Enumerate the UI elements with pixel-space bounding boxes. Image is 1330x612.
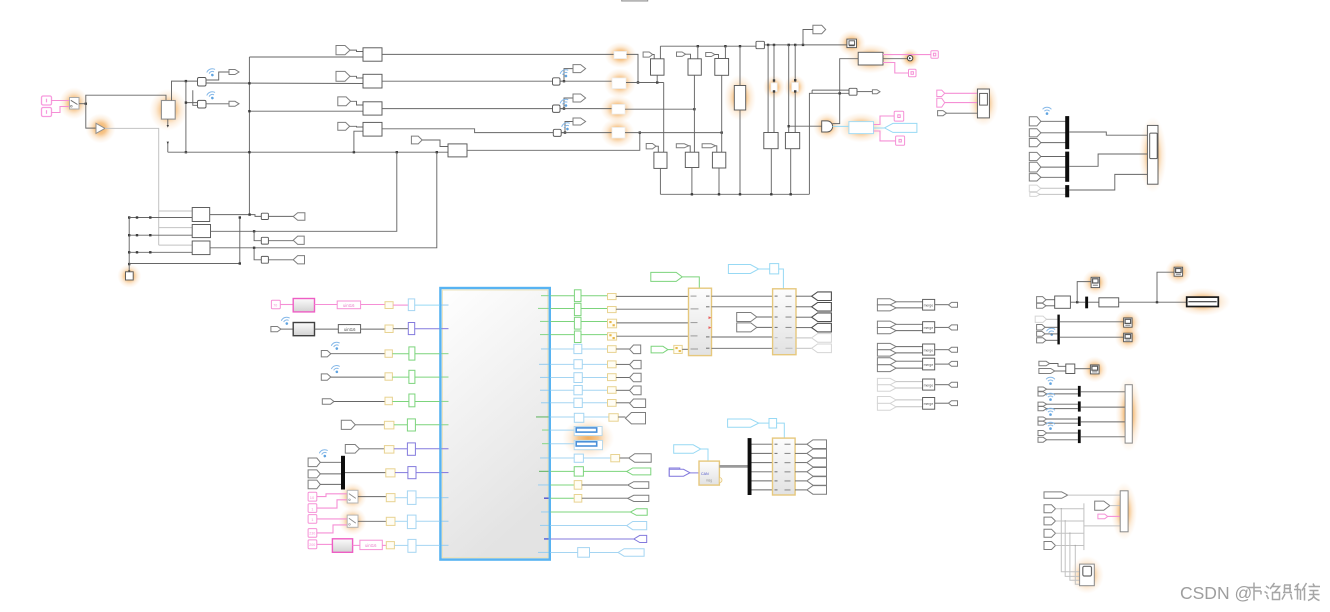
display D2 highlighted [1174,267,1183,276]
goto tag G2 [229,101,239,106]
mux bar m4 [1078,430,1081,444]
wire cyan to big tag [874,127,885,129]
block IC data store highlighted [847,39,857,48]
mux row2 tags [1038,402,1078,411]
wire Y11 to LB11 [394,544,408,546]
wire j1 down to B2 [186,81,198,103]
out row20 lightblue [551,548,645,558]
yellow sq Y5 [385,397,392,405]
wire C2 bottom long [693,75,695,152]
wire y83 B1 to R2 [206,82,363,85]
out row5 blue [551,344,641,353]
switch sw2 highlighted [347,515,358,527]
mux bar m3 [1078,417,1081,427]
wire bot3 bottom [718,168,720,194]
from tag F1 [336,46,350,55]
pink square PS2 [909,69,917,76]
port label dashes big block [442,295,549,553]
wifi icon group2 [1046,327,1056,336]
block T1 tall highlighted [734,86,745,111]
sub2 out wires [796,295,812,297]
gray from tag GF1 [938,111,947,116]
wire bot2 bottom [691,168,693,195]
block b3 [192,241,210,255]
wire bus to TB2 [1084,525,1120,527]
block PG2 gradient magenta [332,539,352,553]
wire drop to r3 [254,248,261,260]
from tag RT5 [1029,162,1041,172]
pink sq S3p [308,515,317,524]
wire to display D3 [1060,321,1124,323]
block R3 [363,102,382,115]
wire r3 to g3 [268,259,293,261]
svg-text:merge: merge [924,304,934,308]
svg-text:uint16: uint16 [343,303,355,308]
inport rect indigo [669,468,680,476]
switch SW1 [70,98,80,110]
out row11 display bar1 [551,427,603,436]
wire BO1 pink down to PS2 [883,63,909,74]
wire PG2 to PU2 [353,544,360,546]
wire verticals to bot4 [767,45,769,133]
pink const PK1 [271,300,280,309]
svg-text:merge: merge [924,348,934,352]
wire vertical to bot5 through B [794,45,796,133]
block R4 [363,122,382,136]
wire FR3 to Y3 [331,353,385,355]
wire NF1 to TB2 [1068,494,1121,496]
block BO1 highlighted [858,52,883,65]
wire gate second input riser [833,93,840,123]
from tag FC3 [706,53,715,57]
wire K2 to switch [51,107,69,113]
wire IB7 to block [415,448,439,450]
block O3 highlighted [612,105,625,115]
block C2 [688,59,701,75]
wire BO1 pink out to PS1 [883,54,931,56]
mux bar group2 [1057,315,1059,345]
from tag RT3 [1029,139,1041,147]
mux bar m2 [1078,401,1081,411]
wire FR7 to Y7 [359,448,384,450]
out row16 [551,495,649,503]
wire block448 out up to O4 line [467,133,640,151]
mux bar m1 [1078,386,1081,397]
from tag RT2 [1029,129,1041,137]
wire m4 to TB [1081,436,1125,438]
constant K2 (pink) [42,108,52,117]
from tag FB1 [646,144,656,149]
goto tag G1 [229,70,239,75]
yellow sq Y3 [385,350,392,357]
wire riser to display D2 [1157,272,1174,302]
merge row6 faint [877,397,957,411]
wire sub1 to sub2 row5 [712,336,773,338]
green from tag GFT [651,346,668,353]
wire R3 out to S2 [382,108,553,110]
wire y111 to R3 [249,110,363,112]
wire riser to BO1 [840,59,859,94]
and gate U1 highlighted [822,121,833,132]
stub tick to row wire [167,142,169,152]
wifi icon GT2 [281,316,292,326]
wifi icon S2 [559,98,570,109]
wire second line into B2 [193,90,198,105]
wire sub1 to sub2 row6 [712,347,773,349]
block O2 highlighted [612,78,626,89]
from tag MX3 [308,480,320,489]
subsystem sub4 [773,438,796,495]
stub below MS [167,119,169,126]
wire B2 to goto G2 [206,103,229,105]
from tag MA [1039,361,1050,366]
lightblue rect LB11 [408,539,416,552]
wire top bus y46 [660,45,756,47]
goto tag T3 [573,118,586,125]
wire sub3 thick out [719,465,748,468]
block C3 [715,59,729,76]
wire R2 out to S1 [382,80,553,82]
indigo from tag IFT [669,469,690,476]
wire GR5 to block [415,401,440,403]
svg-text:CSDN @: CSDN @ [1180,583,1252,603]
lightblue rect LB10 [407,515,416,529]
wifi m1 [1046,377,1055,385]
goto tag OT2 [812,303,832,312]
wire PU1 to Y1 [361,304,385,306]
wire r2 to g2 [268,240,293,242]
from tag RT7 faint [1029,185,1041,192]
wire PK1 to PG1 [280,304,293,306]
yellow sq Y1 [385,302,393,309]
wire parallel pair line [812,89,849,91]
indigo rect IB2 [408,323,414,335]
yellow sq Y7 [384,446,394,454]
white tag WT2 [737,323,757,332]
wire S1 out to O2 [560,80,612,82]
wires tags to mux bars [1041,120,1066,122]
block KG gradient black [293,323,314,336]
block bot5 [785,133,799,149]
block O4 highlighted [612,128,625,139]
wire T1 top [739,46,741,85]
wire down to orange square [128,264,130,272]
block B delay highlighted [792,83,799,92]
wire y57 to R1 [249,56,363,58]
block CAN pack highlighted [849,122,874,134]
block A delay highlighted [771,83,777,92]
wifi icon MX [319,449,330,459]
wire Y4 to GR4 [392,376,409,378]
goto tag OT4 [812,323,832,332]
gray from tag GT2 [271,327,281,332]
top partial block [622,0,648,1]
block MC [1066,364,1075,374]
display D5 highlighted [1090,365,1099,374]
goto tag g3 [293,256,304,264]
wire to and gate [789,125,822,127]
wire S2 out to O3 [560,108,612,110]
wire NF2 to TB2 [1110,505,1120,507]
wire B1 to goto G1 [206,72,229,80]
wire down to gain [86,104,96,128]
wire b2 out long [211,152,397,231]
block M1 [849,88,857,95]
from tag NT2 [1044,517,1056,525]
wire Y2 to IB2 [393,328,408,330]
blue from tag BFT3 [674,445,701,454]
wire Y6 to GR6 [394,424,408,426]
from tag NT3 [1044,529,1056,537]
wire row5 y152 [168,151,448,153]
svg-text:CAN: CAN [701,472,709,476]
out row7 blue [551,373,642,383]
wire mux out to Y8 [345,472,386,474]
wire RC out to bar [1070,301,1085,303]
wire M1 to goto [857,91,872,93]
wire up to MS top [86,95,166,104]
merge row1 [877,299,957,311]
block C1 [651,59,665,75]
display D4 highlighted [1124,333,1133,342]
wifi icon RT [1043,107,1052,115]
wire MC to D5 [1075,368,1091,370]
wire to display D4 [1060,336,1124,338]
wire PU2 to Y11 [382,544,386,546]
yellow sq Y2 [385,325,393,333]
from tag RT6 [1029,174,1041,181]
wire R1 out to O1 [382,53,614,55]
block OS highlighted [126,272,134,280]
goto tag M1T [872,90,880,94]
out row14 green [551,467,651,476]
from tag NT1 [1044,505,1056,513]
scope SC highlighted [1080,564,1095,586]
pink wires to sw2 [317,518,347,520]
wire S3 out to O4 [561,132,612,134]
goto tag TG top [813,25,826,33]
wifi m2 [1046,393,1055,401]
wire sw1 to Y9 [358,496,386,498]
from tag MX2 [308,470,320,478]
wires tags to mux [320,461,341,463]
wire R4 lower input riser [354,131,363,152]
constant K1 (pink) [42,96,52,105]
out row13 blue [551,454,652,463]
wire GR6 to block [415,424,439,426]
yellow sq Y10 [386,517,395,525]
wire gate out cyan [833,125,849,127]
wire PG1 to PU1 [315,304,338,306]
yellow sq icon [674,345,682,353]
wire Y8 to IB8 [395,472,408,474]
block b1 [192,208,210,222]
from tag FR4 [321,374,331,380]
watermark hanzi strokes [1247,583,1320,601]
block756 [756,41,764,48]
blue sq BS2 [769,419,777,429]
merge row2 [877,321,957,334]
wire bot5 bottom [790,149,792,195]
subsystem sub3 [699,461,722,485]
wire FR4 to Y4 [331,376,385,378]
out row12 display bar2 [551,440,603,449]
out row2 green [551,303,689,315]
block b2 [192,225,210,238]
mux bar3 [1065,185,1069,197]
wires to mux2 [1047,318,1058,320]
demux bar [748,438,752,495]
wire pink PF2 to scope [945,102,978,104]
wire O3 out [625,108,694,110]
wire IB2 to block [415,328,440,330]
wire Y10 to LB10 [395,520,407,522]
wire S5p to PG2 [317,543,333,545]
wifi icon S1 [559,68,570,79]
display D1 highlighted [1091,277,1100,287]
pink from tag PF1 [937,90,945,96]
svg-text:200: 200 [309,543,315,547]
from tag NF2 [1095,501,1110,510]
goto tag T1 [573,65,586,73]
pink sq S1p [308,492,317,501]
wire b1 dark input [129,217,192,219]
subsystem sub2 [773,289,796,355]
wire bottom bus y194 [660,193,809,195]
block S3 [553,129,561,136]
goto tag g1 [293,213,305,221]
block bot3 [712,152,725,168]
mux row4 tags [1038,431,1078,443]
wire switch out to junctions [79,103,86,105]
block S1 [553,78,561,85]
wire F5 to block448 [422,140,448,147]
from tag FR5 [322,399,334,405]
wire m2 to TB [1081,406,1125,408]
pink sq S2p [308,504,317,513]
block B1 [198,78,207,87]
wires MA MB to MC [1050,364,1066,367]
out row17 green tag [551,509,648,516]
pink sq S5p [308,540,317,549]
pink square PS3 [894,111,904,121]
wire bus up x809 [809,93,849,194]
block bot4 [764,133,778,149]
wire sw2 to Y10 [358,520,386,522]
wire MS top to B1 [172,81,198,100]
svg-text:merge: merge [924,383,934,387]
mux row3 tags [1038,417,1078,425]
wire bar to RD [1088,301,1099,303]
wire R4 out stepped to S3 [382,129,553,133]
wire pink PF1 to scope [945,92,978,94]
wire LB1 to block [415,304,440,306]
from tag MB [1039,369,1055,374]
svg-text:uint16: uint16 [365,543,377,548]
from tag RB [1037,303,1046,308]
wire b3 out long [210,152,437,248]
svg-text:msg: msg [706,479,712,483]
wire bot4 bottom [770,149,772,195]
tall block TB2 highlighted [1120,491,1128,532]
block PG1 gradient magenta [293,299,314,312]
block PU1 uint16 [337,301,360,309]
wire m1 to TB [1081,391,1125,393]
wire j1 continues down to row5 [185,103,187,153]
from tag RT4 [1029,152,1041,160]
from tag NT4 [1044,542,1056,550]
wire GFT to ysq icon [668,349,674,351]
wifi m3 [1046,408,1055,416]
wire Y3 to GR3 [392,353,409,355]
blue sq BS1 [770,264,779,274]
wire S3 to goto [561,122,573,133]
wire BO1 gray out to circle [883,58,908,60]
wifi icon FR4 [331,364,342,374]
wire pink down to PS4 [874,131,896,141]
wire C1 bottom [656,75,658,82]
wifi icon S3 [561,121,572,132]
from tag MX1 [308,458,320,467]
svg-text:230: 230 [309,532,315,536]
from tag FC1 [643,52,653,57]
cyan goto tag big [885,123,917,132]
from tag RA [1037,297,1046,303]
block R1 [363,48,382,61]
wire bsq down to sub2 [779,269,784,289]
block r2 [261,237,268,244]
goto tag OT3 [812,313,832,322]
from tag FB2 [676,144,688,148]
wire FR5 to Y5 [334,401,385,403]
from tags group2 [1035,316,1046,322]
node sw-out [85,103,87,105]
wire IB8 to block [416,472,440,474]
from tag RT8 faint [1030,192,1040,196]
pink tag NP [1098,514,1108,519]
svg-text:10: 10 [310,495,315,500]
out row3 green [551,317,689,329]
wire LB9 to block [416,497,440,499]
lightblue rect LB9 [407,491,416,505]
out row6 blue [551,360,642,369]
white tag WT1 [737,313,757,322]
wires NT rows [1056,508,1084,510]
from tag FB3 [702,144,715,148]
switch sw1 highlighted [347,490,358,503]
pink square PS4 [896,136,905,145]
mux row1 tags [1038,387,1078,396]
wire b1 out to r1 [210,215,262,217]
block O1 highlighted [614,52,627,59]
wire bsq2 down to sub4 [777,423,785,438]
merge row4 [877,358,957,372]
svg-text:70: 70 [273,303,277,307]
wire O4 out [625,132,722,134]
wire bottom long [129,263,240,265]
wire riser to display D1 [1077,282,1091,303]
pink wires to sw1 [317,494,347,497]
display D3 highlighted [1124,318,1133,327]
block RC [1055,296,1071,308]
wire Y9 to LB9 [395,497,407,499]
wire to sub1 in5 [682,348,688,350]
wire bot1 bottom [659,168,661,194]
wifi m4 [1046,422,1055,430]
indigo rect IB8 [408,467,416,479]
mux bar2 [1065,152,1069,182]
yellow sq Y4 [385,373,392,380]
